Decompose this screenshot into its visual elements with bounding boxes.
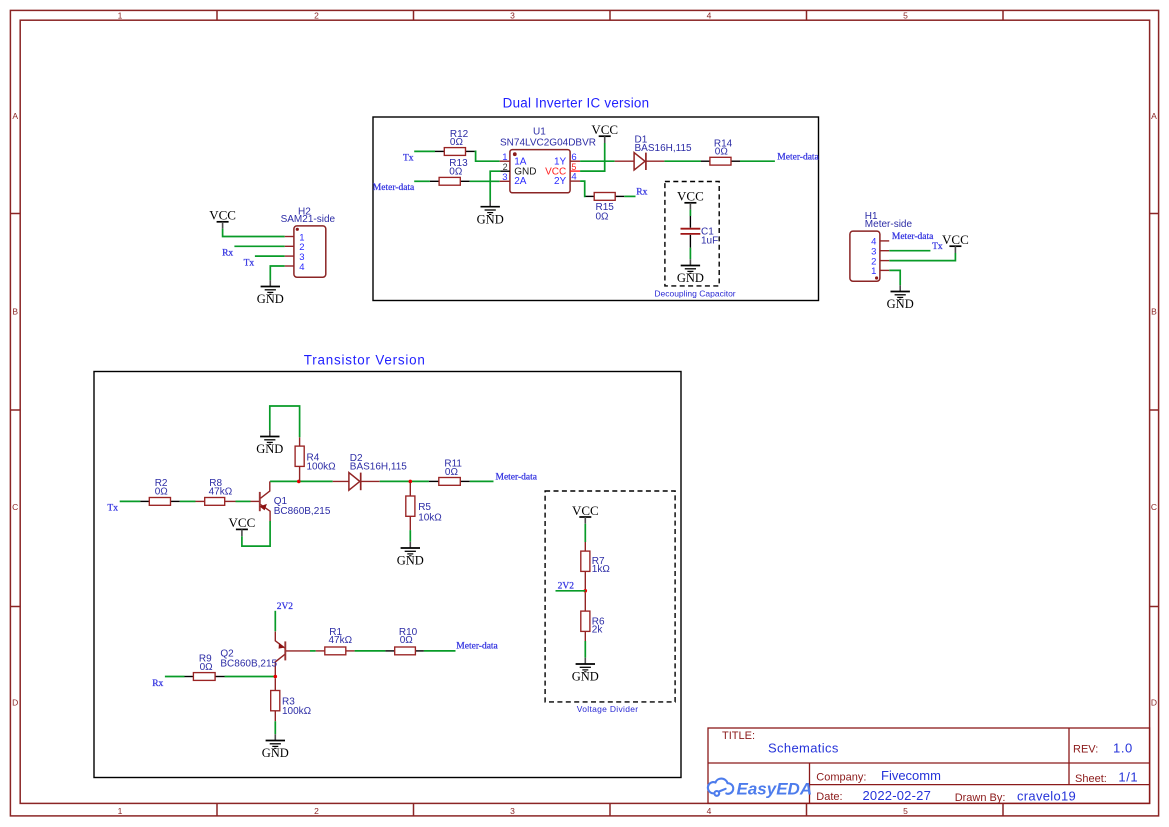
svg-text:2A: 2A	[514, 176, 527, 187]
connector H1 Meter-side	[850, 211, 913, 281]
svg-text:5: 5	[571, 162, 576, 172]
resistor R12	[435, 129, 475, 156]
title block logo divider	[809, 763, 811, 803]
wire R3 to GND	[274, 721, 276, 734]
wire R13 to U1 pin 3	[470, 180, 500, 182]
svg-text:Meter-data: Meter-data	[456, 642, 498, 652]
resistor R1	[316, 627, 355, 655]
ground (R5)	[397, 542, 424, 568]
svg-text:B: B	[12, 307, 18, 317]
svg-text:1uF: 1uF	[701, 236, 718, 247]
resistor R8	[196, 478, 236, 505]
svg-text:Company:: Company:	[816, 772, 866, 784]
wire H1 pin 1 to GND	[889, 270, 900, 285]
EasyEDA logo cloud	[708, 779, 733, 796]
svg-text:Schematics: Schematics	[768, 740, 839, 755]
svg-text:100kΩ: 100kΩ	[307, 462, 337, 473]
wire Rx to R9	[165, 676, 185, 678]
svg-text:Meter-data: Meter-data	[777, 152, 819, 162]
left ruler ticks	[10, 214, 20, 607]
resistor R3	[271, 678, 312, 721]
node junction Q2/R3	[274, 675, 278, 679]
pin 1	[500, 152, 510, 163]
svg-text:0Ω: 0Ω	[155, 487, 169, 498]
node junction 2V2	[584, 589, 588, 593]
wire R8 to Q1 base	[236, 500, 251, 502]
wire 2V2 label	[556, 590, 586, 592]
H1 pin 2	[871, 256, 889, 267]
svg-text:1: 1	[118, 11, 123, 21]
svg-text:Tx: Tx	[107, 504, 118, 514]
svg-text:EasyEDA: EasyEDA	[737, 780, 813, 799]
ground (H2)	[257, 280, 284, 306]
wire H2 pin 4 to GND	[270, 266, 284, 280]
resistor R14	[701, 138, 740, 165]
H2 pin 4	[285, 262, 305, 273]
svg-text:REV:: REV:	[1073, 743, 1098, 755]
H2 pin 2	[285, 242, 305, 253]
decoupling capacitor dashed box	[665, 182, 719, 286]
ground (decoupling)	[677, 259, 704, 285]
svg-text:Tx: Tx	[244, 259, 255, 269]
wire R2 to R8	[180, 500, 196, 502]
svg-text:0Ω: 0Ω	[715, 146, 729, 157]
node junction R4/collector	[297, 480, 301, 484]
wire R12 to U1 pin 1	[475, 151, 500, 161]
svg-text:2022-02-27: 2022-02-27	[863, 788, 932, 803]
node junction R5/R11	[409, 480, 413, 484]
wire Meter-data to R13	[414, 180, 430, 182]
svg-text:Fivecomm: Fivecomm	[881, 768, 941, 783]
resistor R2	[140, 478, 180, 505]
wire R4 top to GND loop	[270, 406, 300, 437]
svg-text:5: 5	[903, 806, 908, 816]
svg-text:Voltage Divider: Voltage Divider	[577, 704, 639, 714]
ground (R3)	[262, 734, 289, 760]
svg-text:Meter-data: Meter-data	[373, 183, 415, 193]
left ruler letters	[12, 111, 18, 708]
pin 3	[500, 172, 510, 183]
wire R6 to GND	[584, 641, 586, 658]
wire H1 pin 2 to VCC	[889, 253, 955, 261]
svg-text:Meter-side: Meter-side	[865, 219, 913, 230]
resistor R5	[406, 483, 443, 530]
connector H2 SAM21-side	[281, 207, 336, 278]
svg-text:Dual Inverter IC version: Dual Inverter IC version	[503, 96, 650, 111]
resistor R7	[581, 542, 611, 589]
svg-text:0Ω: 0Ω	[200, 662, 214, 673]
wire R14 to Meter-data	[740, 160, 775, 162]
svg-text:C: C	[12, 502, 18, 512]
transistor Q2 BC860B,215	[220, 632, 285, 677]
svg-text:0Ω: 0Ω	[596, 211, 610, 222]
wire VCC to H2 pin 1	[223, 229, 285, 237]
svg-text:2k: 2k	[592, 624, 604, 635]
top ruler ticks	[217, 10, 1003, 20]
svg-text:1kΩ: 1kΩ	[592, 564, 611, 575]
diode D1 BAS16H,115	[615, 135, 692, 170]
pin 5	[570, 162, 580, 172]
pin 6	[570, 152, 580, 163]
svg-text:Sheet:: Sheet:	[1075, 773, 1107, 785]
wire R9 to junction	[225, 676, 276, 678]
svg-text:Rx: Rx	[636, 188, 647, 198]
svg-text:B: B	[1151, 307, 1157, 317]
svg-text:1: 1	[871, 266, 876, 277]
svg-text:2: 2	[503, 162, 508, 172]
resistor R6	[581, 593, 605, 641]
svg-text:R5: R5	[418, 502, 431, 513]
wire D1 to R14	[664, 160, 701, 162]
svg-text:U1: U1	[533, 127, 546, 138]
svg-text:D: D	[12, 698, 18, 708]
right ruler ticks	[1150, 214, 1159, 607]
voltage divider dashed box	[545, 491, 675, 702]
wire Tx to R2	[120, 500, 141, 502]
wire R5 to GND	[409, 530, 411, 542]
H1 pin 1	[871, 266, 889, 277]
wire VCC to U1 pin 5	[580, 143, 605, 171]
svg-text:Rx: Rx	[152, 679, 163, 689]
svg-text:Meter-data: Meter-data	[496, 473, 538, 483]
svg-text:SAM21-side: SAM21-side	[281, 214, 336, 225]
H2 pin 1	[285, 232, 305, 243]
VCC (H1)	[942, 232, 969, 253]
wire Tx to H2 pin 3	[255, 255, 285, 257]
svg-text:Date:: Date:	[816, 791, 842, 803]
ground (above R4)	[256, 430, 283, 456]
wire Q1 collector row	[270, 480, 333, 482]
svg-text:Decoupling Capacitor: Decoupling Capacitor	[654, 288, 735, 298]
right ruler letters	[1151, 111, 1157, 708]
svg-text:4: 4	[707, 806, 712, 816]
H1 pin 3	[871, 247, 889, 258]
svg-text:0Ω: 0Ω	[449, 167, 463, 178]
svg-text:3: 3	[510, 11, 515, 21]
title block rev divider	[1068, 728, 1070, 785]
VCC (decoupling)	[677, 189, 704, 210]
svg-text:1.0: 1.0	[1113, 741, 1133, 756]
svg-text:BC860B,215: BC860B,215	[274, 506, 331, 517]
H2 pin 3	[285, 252, 305, 263]
title block row line 1	[708, 762, 1150, 764]
wire VCC to R7	[584, 524, 586, 542]
transistor Q1 BC860B,215	[251, 481, 331, 521]
svg-text:TITLE:: TITLE:	[722, 730, 755, 742]
svg-text:cravelo19: cravelo19	[1017, 789, 1076, 804]
wire Q1 emitter to VCC loop	[242, 521, 270, 546]
svg-text:Drawn By:: Drawn By:	[955, 792, 1006, 804]
section box Dual Inverter IC version	[373, 117, 819, 301]
wire VCC to C1	[689, 210, 691, 216]
wire Tx to R12	[414, 150, 435, 152]
resistor R4	[295, 437, 336, 481]
svg-text:A: A	[1151, 111, 1157, 121]
resistor R11	[429, 459, 470, 486]
resistor R13	[430, 158, 470, 185]
wire U1 pin 6 to D1	[580, 160, 615, 162]
svg-text:3: 3	[510, 806, 515, 816]
svg-text:Rx: Rx	[222, 249, 233, 259]
svg-text:Meter-data: Meter-data	[892, 232, 934, 242]
wire D2 to junction	[380, 480, 429, 482]
ground (below U1)	[477, 200, 504, 226]
section box Transistor Version	[94, 372, 681, 778]
title block row line 2	[810, 784, 1150, 786]
bottom ruler ticks	[217, 803, 1003, 816]
svg-text:5: 5	[903, 11, 908, 21]
resistor R9	[185, 653, 225, 680]
title block outline	[708, 728, 1150, 803]
svg-text:47kΩ: 47kΩ	[329, 635, 353, 646]
wire R10 to Meter-data	[424, 650, 456, 652]
svg-text:SN74LVC2G04DBVR: SN74LVC2G04DBVR	[500, 137, 596, 148]
svg-text:0Ω: 0Ω	[450, 137, 464, 148]
svg-text:C: C	[1151, 502, 1157, 512]
svg-text:2: 2	[314, 11, 319, 21]
VCC (Q1)	[229, 515, 256, 536]
svg-text:Transistor Version: Transistor Version	[304, 353, 426, 368]
svg-text:2Y: 2Y	[554, 176, 567, 187]
svg-text:Tx: Tx	[403, 153, 414, 163]
wire Rx to H2 pin 2	[234, 245, 284, 247]
capacitor C1 1uF	[681, 216, 719, 248]
H1 pin 4	[871, 237, 889, 248]
resistor R15	[586, 193, 625, 223]
svg-text:10kΩ: 10kΩ	[418, 512, 442, 523]
svg-text:0Ω: 0Ω	[400, 635, 414, 646]
wire C1 to GND	[689, 248, 691, 259]
bottom ruler numbers	[118, 806, 909, 816]
diode D2 BAS16H,115	[333, 453, 408, 490]
svg-text:1/1: 1/1	[1118, 770, 1138, 785]
VCC (divider)	[572, 503, 599, 524]
svg-text:BC860B,215: BC860B,215	[220, 659, 277, 670]
ground (H1)	[887, 285, 914, 311]
svg-text:2: 2	[314, 806, 319, 816]
svg-text:3: 3	[502, 172, 507, 183]
svg-text:2V2: 2V2	[277, 602, 294, 612]
svg-text:BAS16H,115: BAS16H,115	[635, 143, 693, 154]
svg-text:0Ω: 0Ω	[445, 467, 459, 478]
VCC (above U1)	[591, 122, 618, 143]
op-amp U1 SN74LVC2G04DBVR	[500, 127, 596, 193]
svg-text:4: 4	[571, 172, 576, 183]
ground (divider)	[572, 658, 599, 684]
svg-text:D: D	[1151, 698, 1157, 708]
pin 2	[500, 162, 510, 172]
wire U1 pin 2 to GND	[490, 171, 500, 200]
wire R11 to Meter-data	[470, 480, 494, 482]
wire U1 pin 4 to R15	[580, 181, 585, 196]
wire 2V2 to Q2 emitter	[274, 611, 276, 632]
wire R15 to Rx	[624, 195, 635, 197]
wire H1 pin 3 to Tx	[889, 250, 930, 252]
VCC (H2)	[209, 208, 236, 229]
svg-text:BAS16H,115: BAS16H,115	[350, 462, 408, 473]
svg-text:A: A	[12, 111, 18, 121]
svg-text:100kΩ: 100kΩ	[282, 706, 312, 717]
svg-text:4: 4	[707, 11, 712, 21]
wire R1 to R10	[355, 650, 386, 652]
svg-text:1: 1	[118, 806, 123, 816]
svg-text:2V2: 2V2	[558, 582, 575, 592]
pin 4	[570, 172, 580, 183]
svg-text:47kΩ: 47kΩ	[209, 487, 233, 498]
resistor R10	[385, 627, 424, 655]
wire Q2 base to R1	[286, 650, 310, 652]
svg-text:4: 4	[299, 262, 304, 273]
top ruler numbers	[118, 11, 909, 21]
